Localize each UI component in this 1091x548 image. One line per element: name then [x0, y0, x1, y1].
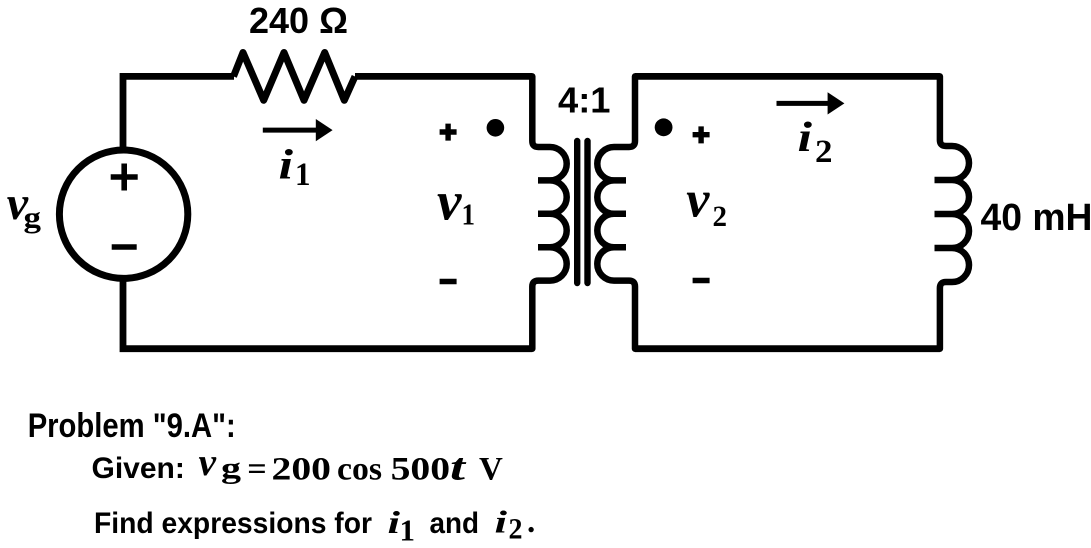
- svg-text:2: 2: [815, 134, 833, 170]
- svg-text:and: and: [430, 507, 480, 540]
- svg-text:v: v: [437, 171, 462, 232]
- svg-text:g: g: [24, 201, 42, 234]
- svg-text:1: 1: [295, 157, 311, 193]
- svg-text:240 Ω: 240 Ω: [249, 0, 348, 41]
- svg-text:t: t: [450, 447, 467, 489]
- wire: resistor to primary top-right corner: [355, 73, 532, 80]
- polarity dot primary: [487, 119, 505, 137]
- svg-text:i: i: [798, 115, 813, 161]
- svg-text:Given:: Given:: [92, 452, 185, 485]
- wire: secondary top: [635, 73, 940, 80]
- svg-text:2: 2: [509, 513, 523, 546]
- transformer secondary winding: [597, 76, 635, 348]
- label minus v1: [440, 279, 457, 284]
- svg-text:i: i: [279, 142, 294, 188]
- arrow i1: [263, 128, 317, 133]
- voltage source plus sign: [111, 164, 138, 191]
- inductor 40mH: [935, 76, 970, 348]
- svg-text:1: 1: [462, 196, 476, 231]
- svg-text:2: 2: [713, 200, 728, 233]
- transformer primary winding: [532, 76, 566, 348]
- wire: primary bottom: [123, 276, 532, 349]
- svg-text:v: v: [199, 440, 217, 484]
- svg-text:cos: cos: [337, 452, 382, 488]
- label minus v2: [693, 278, 710, 283]
- svg-text:Find expressions for: Find expressions for: [94, 507, 372, 540]
- svg-text:500: 500: [391, 452, 451, 488]
- label plus v2: [693, 126, 710, 143]
- svg-text:1: 1: [400, 513, 416, 548]
- wire: secondary bottom: [635, 345, 940, 352]
- resistor R 240ohm zigzag: [234, 53, 356, 101]
- polarity dot secondary: [655, 118, 673, 136]
- svg-text:v: v: [686, 172, 710, 229]
- svg-text:i: i: [495, 504, 508, 540]
- svg-text:g: g: [221, 452, 241, 485]
- transformer core lines: [577, 141, 587, 283]
- svg-text:.: .: [527, 504, 535, 540]
- svg-text:i: i: [388, 504, 401, 540]
- wire: source top to top-left corner to resistor: [123, 76, 234, 152]
- voltage source minus sign: [112, 244, 137, 250]
- svg-text:V: V: [479, 452, 503, 488]
- arrow i2: [777, 101, 830, 106]
- svg-text:4:1: 4:1: [558, 80, 611, 121]
- label plus v1: [440, 124, 457, 141]
- svg-text:=: =: [247, 452, 266, 488]
- svg-text:40 mH: 40 mH: [981, 197, 1091, 239]
- svg-text:200: 200: [272, 452, 332, 488]
- voltage source Vg circle: [59, 150, 187, 278]
